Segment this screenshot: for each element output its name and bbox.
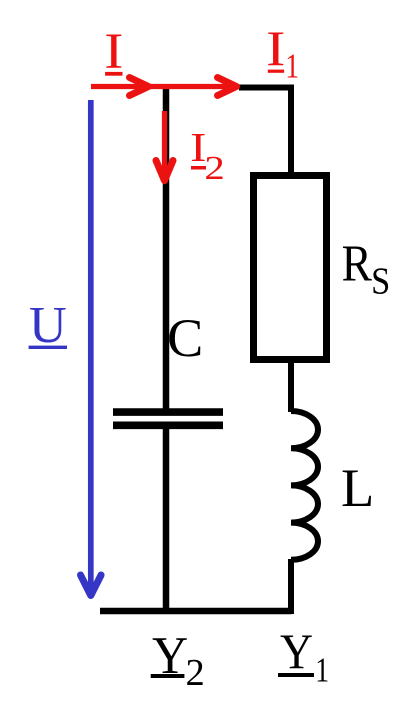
wire resistor to inductor	[288, 363, 294, 412]
svg-text:1: 1	[285, 46, 299, 85]
svg-text:1: 1	[315, 650, 329, 689]
svg-text:L: L	[341, 457, 374, 518]
wire C branch lower vertical	[163, 429, 170, 611]
svg-text:I: I	[266, 20, 285, 76]
wire red current arrow I2 shaft	[162, 111, 167, 178]
svg-text:I: I	[104, 23, 123, 80]
voltage arrow U shaft (blue)	[88, 100, 94, 590]
svg-text:C: C	[167, 308, 203, 368]
svg-text:2: 2	[204, 150, 224, 187]
inductor L coil	[291, 411, 318, 560]
wire inductor to bottom	[288, 559, 294, 614]
wire right branch top vertical	[288, 85, 294, 175]
wire C branch upper vertical (from junction node)	[163, 85, 170, 409]
svg-text:S: S	[371, 261, 390, 303]
capacitor C top plate	[113, 408, 223, 416]
arrowhead of U	[81, 575, 102, 596]
svg-text:U: U	[29, 296, 67, 354]
arrowhead of I2	[156, 161, 173, 181]
wire bottom horizontal	[100, 608, 292, 615]
resistor RS body	[254, 176, 327, 360]
svg-text:R: R	[342, 235, 372, 293]
svg-text:2: 2	[186, 652, 205, 694]
arrowhead of I1 (at right end)	[218, 78, 237, 96]
svg-text:Y: Y	[280, 623, 313, 679]
capacitor C bottom plate	[113, 421, 223, 429]
wire top horizontal (junction to right branch)	[239, 85, 291, 91]
wire red current arrow I shaft	[91, 84, 236, 89]
arrowhead of I (mid)	[130, 78, 149, 96]
